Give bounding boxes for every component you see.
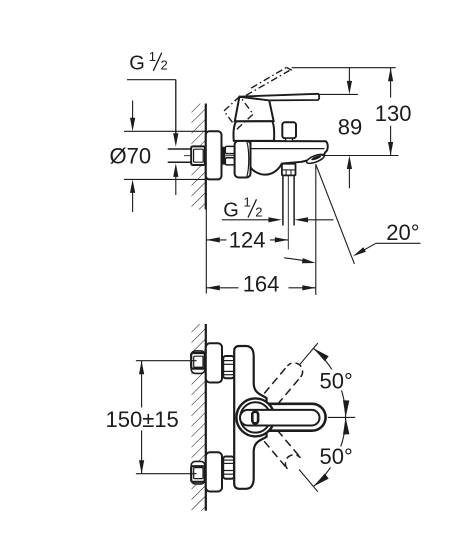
svg-text:150±15: 150±15 [106, 407, 179, 432]
svg-text:G: G [129, 53, 145, 75]
D70 arrow top [132, 101, 134, 121]
G1/2 hose leader+arrows [222, 219, 271, 221]
extension line C (spout outlet) [322, 155, 399, 157]
dim 130 line with arrows [390, 68, 392, 98]
dim 164 line [206, 287, 238, 289]
wall (front view) surface line [205, 324, 207, 511]
svg-text:G: G [223, 199, 239, 221]
lower supply union (behind) [191, 461, 205, 484]
shower hose nut [282, 164, 296, 176]
upper arc arrow at centerline [343, 400, 349, 417]
raised lever (dash-dot) [246, 71, 290, 96]
lower hex nut [223, 457, 234, 479]
lower square union [191, 466, 205, 482]
faucet body (front view) [234, 346, 266, 489]
D70 arrow bottom [132, 191, 134, 212]
faucet body (side view) [251, 141, 328, 175]
faucet axis centerline [184, 155, 250, 157]
spray direction line 20deg [316, 164, 355, 264]
G1/2 leader line [127, 79, 176, 81]
lever (front view) outer outline [238, 404, 326, 431]
G1/2 arrow down to fitting [175, 80, 177, 136]
svg-text:50°: 50° [320, 369, 353, 394]
lever centerline [328, 416, 355, 418]
lever hub outer circle [236, 398, 274, 436]
svg-text:89: 89 [338, 115, 362, 140]
dim 124 line [206, 239, 226, 241]
svg-text:20°: 20° [386, 220, 419, 245]
square union fitting G1/2 [191, 146, 205, 165]
dim 89 upper arrow [348, 68, 350, 84]
diverter knob [282, 122, 296, 138]
extension line B (lever top) [319, 93, 358, 95]
hub logo mark [252, 412, 258, 424]
D70 extension lines [124, 130, 206, 132]
supply pipe stub [168, 148, 192, 150]
lower arc arrow at lever [313, 474, 328, 487]
upper arc arrow at lever [313, 348, 328, 361]
cartridge housing [235, 97, 274, 121]
raised lever hub outline (dash-dot) [224, 96, 253, 129]
upper hex nut [223, 356, 234, 378]
svg-text:50°: 50° [320, 444, 353, 469]
thread profile rects [225, 146, 234, 153]
threaded nipple dark band [222, 147, 226, 165]
extension line A (raised lever top) [292, 67, 396, 69]
upper escutcheon [206, 343, 222, 382]
upper 50deg arc [313, 348, 345, 417]
150 dim line with arrows [141, 361, 143, 408]
svg-text:130: 130 [375, 101, 412, 126]
lever rotated +50 (dashed) [277, 377, 300, 405]
svg-text:2: 2 [161, 58, 168, 73]
lower 50deg arc [313, 417, 345, 486]
label 20deg leader [376, 242, 421, 244]
wall (top view) hatching [192, 104, 206, 210]
svg-text:1: 1 [149, 49, 156, 64]
body parting line [251, 148, 325, 150]
lower radial extension line [299, 470, 318, 492]
upper supply union (behind) [191, 351, 205, 374]
G1/2 arrow up to fitting [175, 174, 177, 195]
svg-text:124: 124 [229, 228, 266, 253]
svg-text:164: 164 [243, 272, 280, 297]
cartridge collar dome [233, 121, 274, 141]
angle arc arrow [284, 258, 312, 263]
aerator (mousseur) [306, 153, 326, 166]
lever hub inner circle [240, 402, 270, 432]
wall extension line down to 164 dim [205, 210, 207, 294]
dim 89 lower arrow [348, 166, 350, 188]
lever handle (rest position) [239, 94, 319, 101]
shower hose pipe [282, 175, 284, 225]
upper radial extension line [299, 343, 318, 365]
wall (front view) hatching [192, 324, 206, 511]
upper square union [191, 353, 205, 369]
lower arc arrow at centerline [343, 417, 349, 434]
svg-text:1: 1 [244, 195, 251, 210]
lever rotated -50 (dashed) [264, 441, 287, 469]
spout vertical reference line [315, 164, 317, 295]
wall (top view) surface line [205, 104, 207, 210]
lower escutcheon [206, 452, 222, 491]
escutcheon (wall flange, side view) [206, 131, 222, 179]
hose pipe centerline [287, 176, 289, 250]
union nut [235, 141, 251, 178]
label 50deg upper [318, 370, 353, 391]
label 50deg lower [318, 447, 353, 468]
svg-text:Ø70: Ø70 [110, 143, 152, 168]
150 dim extension lines [136, 360, 197, 362]
svg-text:2: 2 [255, 204, 262, 219]
lever inner outline [240, 410, 320, 426]
